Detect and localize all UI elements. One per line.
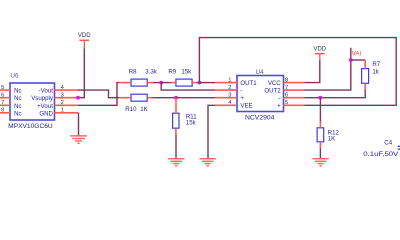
power VDD right symbol bbox=[315, 54, 325, 61]
resistor R11 body bbox=[173, 113, 179, 128]
wire U4 pin6 to junction bbox=[305, 97, 321, 99]
node junction U6 pin3 / VDD bbox=[76, 96, 80, 100]
svg-text:5: 5 bbox=[285, 100, 288, 106]
svg-text:1K: 1K bbox=[328, 135, 335, 142]
svg-text:15k: 15k bbox=[186, 119, 197, 126]
svg-text:VAI: VAI bbox=[352, 51, 362, 58]
svg-text:Nc: Nc bbox=[14, 95, 21, 102]
svg-text:1K: 1K bbox=[140, 106, 147, 113]
U4 pin name +IN1 bbox=[240, 95, 244, 102]
resistor R8 body bbox=[131, 79, 147, 86]
svg-text:R8: R8 bbox=[129, 69, 137, 76]
net label stub VAI bbox=[350, 48, 352, 60]
wire R11 to ground bbox=[175, 135, 177, 159]
svg-text:R7: R7 bbox=[372, 61, 380, 68]
U6 pin name Nc rows bbox=[14, 88, 21, 118]
svg-text:VCC: VCC bbox=[268, 80, 281, 87]
IC U6 sensor box bbox=[10, 83, 55, 120]
U6 right pin stubs 4,3,2,1 bbox=[55, 90, 79, 113]
resistor R12 body bbox=[317, 128, 324, 142]
R10 value label bbox=[125, 106, 147, 113]
wire feedback loop OUT1 to +IN2 bbox=[199, 38, 396, 106]
svg-text:+Vout: +Vout bbox=[37, 103, 53, 110]
svg-text:NCV2904: NCV2904 bbox=[245, 114, 275, 121]
U6 part number MPXV10GC6U bbox=[8, 123, 53, 130]
svg-text:7: 7 bbox=[1, 100, 4, 106]
wire junction to R9 bbox=[161, 82, 171, 84]
svg-text:5: 5 bbox=[1, 85, 4, 91]
svg-text:1k: 1k bbox=[372, 68, 379, 75]
VDD left label bbox=[78, 33, 91, 39]
svg-text:Vsupply: Vsupply bbox=[31, 95, 54, 102]
R8 leads bbox=[119, 82, 153, 84]
U4 part number NCV2904 bbox=[245, 114, 275, 121]
wire junction to U4 pin3 bbox=[176, 97, 215, 99]
node junction R8/R9 bbox=[159, 81, 163, 85]
wire R12 to ground bbox=[319, 148, 321, 158]
svg-text:+: + bbox=[277, 103, 281, 110]
svg-text:8: 8 bbox=[1, 108, 4, 114]
svg-text:VEE: VEE bbox=[240, 103, 252, 110]
ground under R12 bbox=[312, 159, 328, 166]
U4 right pin numbers bbox=[285, 77, 288, 106]
svg-text:VDD: VDD bbox=[78, 33, 91, 39]
R12 value label bbox=[328, 129, 340, 142]
svg-text:1: 1 bbox=[61, 108, 64, 114]
svg-text:15k: 15k bbox=[181, 69, 192, 76]
svg-text:U6: U6 bbox=[10, 73, 19, 80]
U6 left pin stubs 5,6,7,8 bbox=[0, 90, 10, 113]
C4 refdes label bbox=[384, 140, 392, 147]
U4 left pin numbers bbox=[228, 77, 232, 106]
U6 left pin numbers bbox=[1, 85, 4, 114]
svg-text:0.1uF,50V: 0.1uF,50V bbox=[363, 151, 399, 158]
R11 value label bbox=[186, 114, 197, 127]
svg-text:Nc: Nc bbox=[14, 110, 21, 117]
resistor R9 body bbox=[176, 79, 192, 86]
wire U6 pin1 GND down bbox=[78, 113, 80, 136]
svg-text:-: - bbox=[279, 95, 281, 102]
R9 leads bbox=[171, 82, 197, 84]
wire junction to R7 top bbox=[351, 59, 365, 61]
wire U4 pin4 VEE to ground bbox=[208, 105, 215, 158]
U6 pin name +Vout bbox=[37, 103, 53, 110]
node junction R10/R11/U4 pin3 bbox=[174, 96, 178, 100]
svg-text:-Vout: -Vout bbox=[39, 88, 54, 95]
U4 pin name -IN1 bbox=[240, 88, 242, 95]
svg-text:+: + bbox=[240, 95, 244, 102]
ground under U6 bbox=[70, 136, 87, 143]
node junction OUT2/R7 bbox=[349, 58, 353, 62]
wire junction to U4 pin1 bbox=[199, 82, 215, 84]
R10 leads bbox=[119, 97, 153, 99]
wire R7 bottom to -IN2 row bbox=[320, 90, 365, 98]
svg-text:OUT2: OUT2 bbox=[264, 88, 281, 95]
U4 left pin stubs 1-4 bbox=[215, 83, 237, 106]
wire VDD right to U4 pin8 bbox=[305, 61, 320, 83]
ground under VEE bbox=[200, 159, 216, 166]
resistor R7 body bbox=[362, 69, 369, 84]
R7 value label bbox=[372, 61, 380, 75]
R8 value label bbox=[129, 69, 158, 76]
U4 pin name +IN2 bbox=[277, 103, 281, 110]
R11 leads bbox=[175, 98, 177, 135]
U6 refdes label bbox=[10, 73, 19, 80]
U6 right pin numbers bbox=[61, 85, 65, 114]
svg-text:8: 8 bbox=[285, 77, 288, 83]
U6 pin name -Vout bbox=[39, 88, 54, 95]
node junction R9/loop/U4 pin1 bbox=[198, 81, 202, 85]
svg-text:OUT1: OUT1 bbox=[240, 80, 257, 87]
svg-text:6: 6 bbox=[1, 93, 4, 99]
svg-text:Nc: Nc bbox=[14, 88, 21, 95]
net label VAI bbox=[352, 51, 362, 58]
svg-text:2: 2 bbox=[228, 85, 231, 91]
wire OUT2 up to R7 top bbox=[305, 60, 351, 90]
wire VDD left to U6 pin3 bbox=[78, 49, 84, 98]
svg-text:2: 2 bbox=[61, 100, 64, 106]
wire junction down to U4 pin2 bbox=[161, 83, 215, 91]
wire R10 to junction bbox=[153, 97, 177, 99]
U4 refdes label bbox=[256, 69, 265, 76]
U6 pin name GND bbox=[39, 110, 53, 117]
capacitor C4 plates (cut off at edge) bbox=[398, 146, 400, 149]
VDD right label bbox=[313, 47, 326, 53]
ground under R11 bbox=[168, 159, 184, 166]
U4 pin name VEE bbox=[240, 103, 252, 110]
resistor R10 body bbox=[131, 94, 147, 101]
wire U6 pin2 (+Vout) to R8 bbox=[78, 83, 119, 106]
svg-text:3: 3 bbox=[228, 93, 231, 99]
U4 pin name OUT1 bbox=[240, 80, 257, 87]
svg-text:1: 1 bbox=[228, 77, 231, 83]
svg-text:3.3k: 3.3k bbox=[145, 69, 157, 76]
R7 leads bbox=[364, 60, 366, 90]
U4 pin name OUT2 bbox=[264, 88, 281, 95]
C4 value label bbox=[363, 151, 399, 158]
svg-text:Nc: Nc bbox=[14, 103, 21, 110]
svg-text:-: - bbox=[240, 88, 242, 95]
wire R9 to loop junction bbox=[197, 82, 199, 84]
svg-text:R10: R10 bbox=[125, 106, 137, 113]
wire U6 pin4 (-Vout) to R10 bbox=[78, 90, 119, 98]
svg-text:C4: C4 bbox=[384, 140, 392, 147]
svg-text:U4: U4 bbox=[256, 69, 265, 76]
svg-text:MPXV10GC6U: MPXV10GC6U bbox=[8, 123, 53, 130]
U6 pin name Vsupply bbox=[31, 95, 54, 102]
svg-text:VDD: VDD bbox=[313, 47, 326, 53]
R12 leads bbox=[319, 122, 321, 149]
svg-text:3: 3 bbox=[61, 93, 64, 99]
U4 pin name VCC bbox=[268, 80, 281, 87]
wire junction down to R12 bbox=[319, 98, 321, 122]
svg-text:R9: R9 bbox=[168, 69, 176, 76]
op-amp U4 box bbox=[237, 76, 284, 112]
node junction pin6/R12/R7 bbox=[319, 96, 323, 100]
svg-text:6: 6 bbox=[285, 93, 288, 99]
svg-text:7: 7 bbox=[285, 85, 288, 91]
R9 value label bbox=[168, 69, 192, 76]
power VDD left symbol bbox=[79, 40, 89, 48]
U4 right pin stubs 8-5 bbox=[284, 83, 305, 106]
wire R8 to junction bbox=[153, 82, 161, 84]
U4 pin name -IN2 bbox=[279, 95, 281, 102]
svg-text:GND: GND bbox=[39, 110, 53, 117]
